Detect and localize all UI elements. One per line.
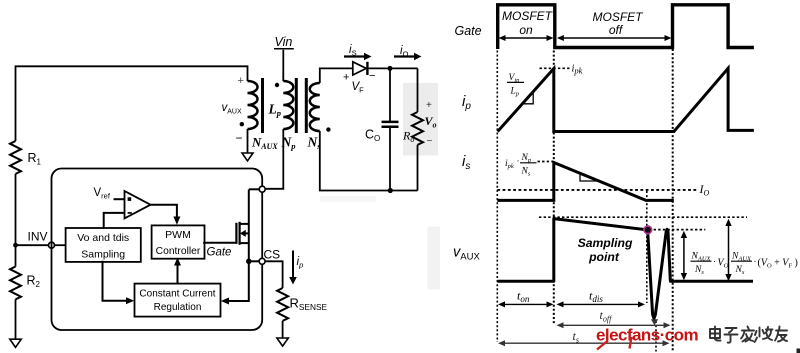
diode D1 VF xyxy=(353,62,366,75)
wire INV pin to sampling block xyxy=(55,244,66,246)
svg-text:point: point xyxy=(588,250,620,264)
wire sampling block to comparator inverting input xyxy=(104,213,125,229)
transformer core bar left xyxy=(261,78,264,133)
wire diode to Co junction xyxy=(369,67,418,69)
ground (divider) xyxy=(10,339,21,347)
wire drain to pin xyxy=(249,188,259,190)
IC controller box U1 xyxy=(52,169,263,331)
wire CS to RSENSE xyxy=(265,261,283,288)
pin CS xyxy=(259,258,265,264)
wire RSENSE to ground xyxy=(282,321,284,338)
char you xyxy=(775,327,787,342)
node diode-Co junction xyxy=(388,66,393,71)
timing guide sampling xyxy=(646,191,648,303)
svg-text:·: · xyxy=(713,257,716,267)
wire aux bottom to ground xyxy=(247,129,249,153)
wire output bottom rail xyxy=(320,131,418,191)
arrow measure NAUX/Ns (Vo+VF) xyxy=(728,222,730,279)
svg-text:Vo and tdis: Vo and tdis xyxy=(77,232,129,244)
arrow span ts xyxy=(500,342,668,344)
current arrow iO xyxy=(394,55,415,57)
wire secondary top to diode xyxy=(320,68,353,83)
svg-text:elecfans·com: elecfans·com xyxy=(596,325,698,344)
pin drain xyxy=(259,186,265,192)
svg-text:Sampling: Sampling xyxy=(81,249,125,261)
svg-text:Regulation: Regulation xyxy=(154,302,202,313)
timing guide ringing zero-cross xyxy=(655,321,657,352)
wire source feedback to CCR xyxy=(229,261,249,301)
transformer T1 primary winding Lp/Np xyxy=(283,81,293,129)
svg-text:INV: INV xyxy=(28,230,48,244)
node INV junction xyxy=(13,243,18,248)
svg-text:Sampling: Sampling xyxy=(578,236,633,250)
waveform vAUX trace xyxy=(497,219,753,319)
svg-text:on: on xyxy=(519,23,533,37)
shaded highlight behind Ro/Vo xyxy=(403,83,438,156)
svg-text:ipk: ipk xyxy=(572,64,583,76)
resistor RO load xyxy=(417,68,419,112)
wire R1 to INV junction xyxy=(15,174,17,245)
arrow span toff xyxy=(559,324,669,326)
op-amp comparator U2 xyxy=(125,191,151,218)
ground (aux winding) xyxy=(242,153,253,161)
wire sampling block to CCR xyxy=(103,261,127,301)
guide is peak level xyxy=(538,161,554,163)
arrow measure NAUX/Ns Vo xyxy=(683,234,685,278)
svg-text:·: · xyxy=(754,257,757,267)
watermark chinese characters xyxy=(710,327,787,343)
wire Vin to primary xyxy=(282,50,284,81)
svg-text:+: + xyxy=(343,72,349,84)
current arrow ip xyxy=(292,251,294,278)
svg-text:·: · xyxy=(517,156,520,166)
svg-text:CS: CS xyxy=(264,248,281,262)
wire INV junction to pin xyxy=(16,244,49,246)
svg-text:MOSFET: MOSFET xyxy=(593,10,645,24)
svg-text:PWM: PWM xyxy=(165,229,191,241)
resistor R1 xyxy=(10,141,21,174)
wire primary bottom to drain pin xyxy=(265,129,283,189)
timing guide gate-fall xyxy=(553,51,555,325)
pin INV xyxy=(49,242,55,248)
block PWM Controller xyxy=(152,225,205,258)
char fa xyxy=(741,327,754,342)
svg-text:MOSFET: MOSFET xyxy=(502,9,554,23)
svg-text:Gate: Gate xyxy=(207,247,232,259)
capacitor CO xyxy=(389,68,391,121)
current arrow iS xyxy=(344,55,365,57)
ground (RSENSE) xyxy=(277,338,288,346)
wire INV junction to R2 xyxy=(15,245,17,266)
waveform ip trace xyxy=(498,68,754,131)
guide IO level xyxy=(497,189,696,191)
guide plateau level xyxy=(539,216,747,218)
waveform is trace xyxy=(497,163,674,201)
timing guide t0 xyxy=(496,51,498,343)
guide ipk level xyxy=(540,67,571,69)
watermark red marks xyxy=(597,341,608,350)
slope indicator ip xyxy=(524,92,534,104)
resistor R2 xyxy=(10,267,21,300)
wire PWM gate lead xyxy=(203,242,236,244)
node MOSFET source junction xyxy=(246,259,252,265)
svg-text:−: − xyxy=(369,70,375,82)
arrow span ton xyxy=(500,303,552,305)
wire Vref to comparator xyxy=(114,198,125,200)
transformer core bars center xyxy=(295,78,298,133)
transformer T1 secondary winding Ns xyxy=(310,83,320,131)
node sampling point xyxy=(644,226,652,234)
char zi xyxy=(725,328,738,343)
resistor RSENSE xyxy=(277,288,288,321)
slope indicator is xyxy=(580,173,597,181)
transformer T1 aux winding NAUX xyxy=(248,81,258,129)
svg-text:(VO + VF ): (VO + VF ) xyxy=(758,258,798,270)
wire source to CS pin xyxy=(249,260,259,262)
svg-text:Vin: Vin xyxy=(275,35,293,49)
timing guide gate-rise xyxy=(672,49,674,352)
svg-text:off: off xyxy=(609,23,624,37)
wire top rail xyxy=(16,66,248,141)
svg-text:Controller: Controller xyxy=(156,246,201,257)
node bottom rail junction xyxy=(388,188,393,193)
svg-text:−: − xyxy=(236,131,243,145)
svg-text:+: + xyxy=(426,100,432,111)
block Constant Current Regulation xyxy=(135,284,221,317)
block Vo and tdis Sampling xyxy=(66,228,141,262)
svg-text:Gate: Gate xyxy=(455,24,482,38)
svg-text:−: − xyxy=(427,136,433,147)
wire CCR to PWM xyxy=(177,265,179,284)
svg-text:+: + xyxy=(238,75,244,87)
arrow span tdis xyxy=(559,303,644,305)
waveform Gate trace xyxy=(498,5,754,49)
arrow span on xyxy=(501,37,552,39)
wire R2 to ground xyxy=(15,299,17,339)
arrow span off xyxy=(559,37,670,39)
wire comparator output to PWM xyxy=(151,205,177,217)
char shao xyxy=(755,327,773,342)
char dian xyxy=(710,327,721,341)
corner blob xyxy=(797,349,800,353)
guide sampling level xyxy=(649,229,705,231)
arrow ringing continues xyxy=(651,319,658,325)
faint watermark remnant rect xyxy=(428,227,441,290)
svg-text:Constant Current: Constant Current xyxy=(139,289,215,300)
transistor Q1 MOSFET xyxy=(235,223,237,244)
faint smudge under output bottom wire xyxy=(320,196,376,202)
